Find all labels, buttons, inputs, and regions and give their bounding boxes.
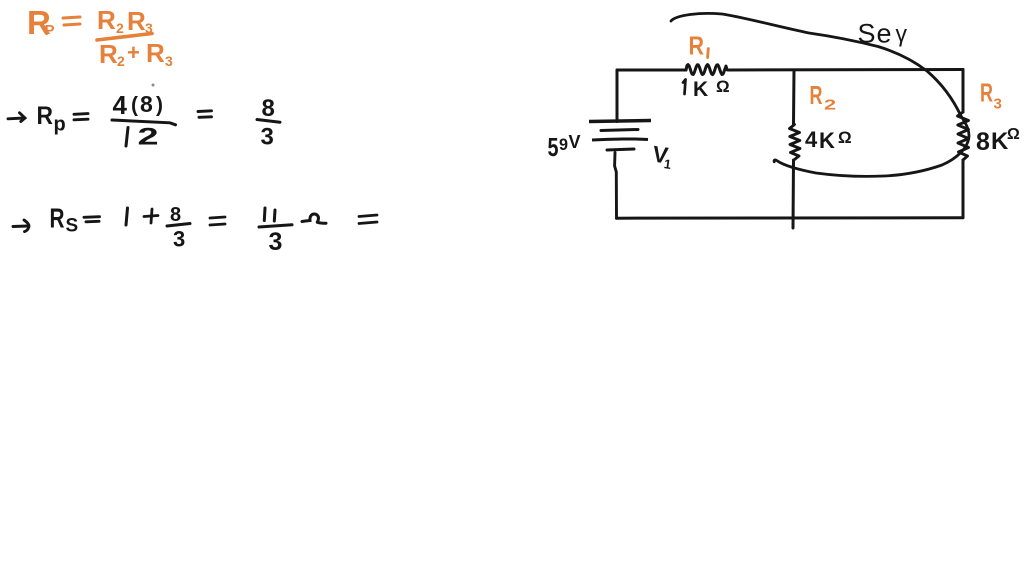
svg-text:3: 3 [165,53,173,69]
svg-text:2: 2 [116,20,124,36]
svg-text:3: 3 [269,228,283,256]
svg-text:9: 9 [559,135,568,154]
value 8kΩ [976,126,1020,156]
equation 1 second equals sign [198,111,212,118]
equation 2 plus sign [144,209,158,223]
equation 2 arrow [13,220,29,232]
svg-text:K: K [693,78,708,101]
svg-text:V: V [569,132,581,152]
equation 1 denominator 12 [126,123,159,150]
svg-text:R: R [127,6,146,36]
svg-text:4: 4 [113,90,128,120]
svg-text:R: R [146,38,165,68]
equation 1 Rp [37,102,66,136]
svg-text:S: S [66,216,79,237]
svg-text:2: 2 [824,96,836,113]
svg-text:8: 8 [976,128,990,156]
svg-text:Se: Se [858,19,893,49]
svg-text:1: 1 [663,156,672,172]
wire top left segment [617,69,686,72]
equation 2 second equals sign [210,217,225,225]
svg-text:8: 8 [262,95,275,122]
battery V1 plates [589,121,651,151]
label R2 [810,80,837,113]
label R3 [980,78,1002,113]
label R1 [689,31,709,61]
wire right upper [962,70,965,113]
svg-text:R: R [689,31,705,61]
wire left lower (battery to bottom-left corner) [615,153,617,219]
svg-text:(: ( [131,94,138,117]
svg-text:8: 8 [140,91,153,117]
equation 1 fraction bar [112,120,176,125]
label V1 [651,141,675,172]
svg-text:4: 4 [805,127,818,152]
equation 2 Rs [50,203,79,237]
wire middle upper [792,70,796,124]
equation 1 arrow [8,113,25,122]
formula equals sign (orange) [63,17,80,25]
equation 2 term 1 [126,208,128,225]
equation 1 equals sign [74,114,88,120]
svg-text:3: 3 [994,96,1002,113]
svg-text:R: R [980,78,993,108]
svg-text:K: K [819,128,835,153]
svg-text:p: p [54,114,66,136]
svg-text:3: 3 [261,124,274,151]
wire bottom [617,216,964,219]
svg-text:P: P [45,22,55,39]
wire top right segment [728,68,963,72]
svg-text:3: 3 [173,227,185,252]
equation 2 trailing equals sign [359,215,377,224]
resistor R1 [686,65,727,75]
svg-text:Ω: Ω [1007,126,1020,143]
stray pen dot [152,84,155,87]
formula numerator R2R3 (orange) [97,5,153,36]
svg-text:2: 2 [138,123,159,150]
series annotation loop [671,13,969,176]
svg-text:R: R [810,80,823,110]
svg-text:Ω: Ω [716,77,730,96]
resistor R3 [958,112,969,160]
svg-text:R: R [50,203,65,234]
formula denominator R2+R3 (orange) [99,38,173,69]
svg-text:8: 8 [170,204,181,226]
svg-text:R: R [99,39,118,69]
label Ser [858,19,908,49]
equation 1 result fraction 8/3 [257,95,280,151]
svg-text:5: 5 [548,132,559,162]
formula fraction bar (orange) [97,34,152,41]
equation 2 result fraction 11/3 [259,208,292,256]
wire right lower [962,160,965,218]
resistor R2 [790,125,801,160]
value 1kΩ [683,77,730,101]
svg-text:): ) [156,94,163,117]
equation 2 equals sign [84,217,100,222]
equation 2 ohm symbol [302,214,326,223]
value 4kΩ [805,127,852,153]
svg-text:2: 2 [117,53,125,69]
svg-text:Ω: Ω [838,128,852,147]
svg-text:R: R [37,102,54,130]
equation 1 numerator 4(8) [113,90,164,120]
svg-text:γ: γ [896,21,908,47]
label 59V [548,132,581,162]
svg-text:R: R [97,5,116,35]
formula Rp label (orange) [27,4,55,41]
wire left upper [616,70,619,122]
equation 2 fraction 8/3 [167,204,190,252]
svg-text:+: + [127,40,140,65]
wire middle lower (overshoots bottom wire) [792,160,796,228]
